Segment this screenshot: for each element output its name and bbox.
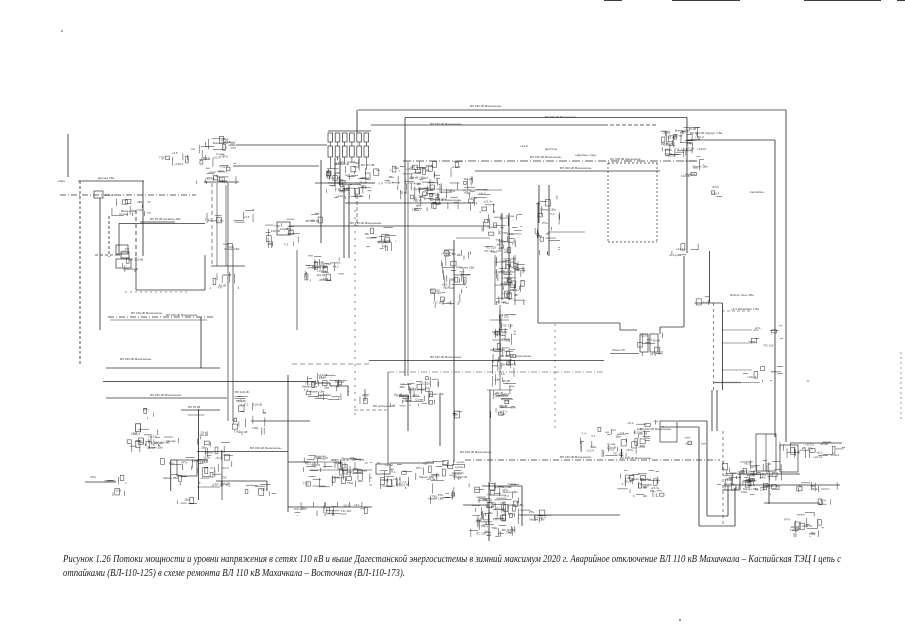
svg-text:Махач 1Ви: Махач 1Ви <box>163 476 178 480</box>
svg-text:кВт: кВт <box>481 523 486 527</box>
svg-text:Т-1: Т-1 <box>220 155 225 159</box>
svg-text:РП+: РП+ <box>413 393 419 397</box>
svg-text:кВт: кВт <box>810 484 815 488</box>
svg-text:кВт: кВт <box>423 462 428 466</box>
svg-text:+8,1-: +8,1- <box>681 147 688 151</box>
svg-text:-15,2+: -15,2+ <box>318 375 327 379</box>
svg-text:кВт: кВт <box>417 181 422 185</box>
svg-text:2Ви: 2Ви <box>137 200 143 204</box>
svg-text:+12,4: +12,4 <box>121 249 129 253</box>
svg-text:Махач 1Ви: Махач 1Ви <box>429 392 444 396</box>
svg-text:Махач 1Ви: Махач 1Ви <box>420 187 435 191</box>
svg-text:+12,4: +12,4 <box>408 181 416 185</box>
svg-text:110 кВ: 110 кВ <box>485 505 494 509</box>
svg-text:ВЛ 330 кВ Махачкала+: ВЛ 330 кВ Махачкала+ <box>470 104 502 108</box>
svg-text:ПС 110: ПС 110 <box>433 301 443 305</box>
svg-text:+8,1-: +8,1- <box>500 313 507 317</box>
svg-text:+УШ-4: +УШ-4 <box>219 165 228 169</box>
svg-text:ВЛ 110 кВ: ВЛ 110 кВ <box>235 390 249 394</box>
svg-text:Т-1: Т-1 <box>223 146 228 150</box>
svg-text:Т-1: Т-1 <box>446 253 451 257</box>
svg-text:-15,2+: -15,2+ <box>408 387 417 391</box>
svg-text:кВт: кВт <box>502 501 507 505</box>
svg-text:+8,1-: +8,1- <box>333 264 340 268</box>
svg-text:Махач 1Ви: Махач 1Ви <box>503 490 518 494</box>
svg-text:35 кВ: 35 кВ <box>499 404 506 408</box>
svg-text:110 кВ: 110 кВ <box>316 273 325 277</box>
svg-text:-7,4: -7,4 <box>619 431 625 435</box>
svg-text:отпайками (ВЛ-110-125) в схеме: отпайками (ВЛ-110-125) в схеме ремонта В… <box>63 568 405 579</box>
svg-text:2Ви: 2Ви <box>453 413 459 417</box>
svg-text:-15,2+: -15,2+ <box>342 503 351 507</box>
svg-text:Сулак: Сулак <box>626 473 635 477</box>
svg-text:кВт: кВт <box>514 293 519 297</box>
svg-text:Махач 1Ви: Махач 1Ви <box>743 487 758 491</box>
svg-text:35 кВ: 35 кВ <box>652 339 659 343</box>
svg-text:35 кВ: 35 кВ <box>381 478 388 482</box>
svg-text:ТЭЦ: ТЭЦ <box>423 169 430 173</box>
svg-text:+УШ-4: +УШ-4 <box>192 459 201 463</box>
svg-text:ГЭС: ГЭС <box>341 466 348 470</box>
svg-text:Сулак: Сулак <box>506 214 515 218</box>
svg-text:+3,5: +3,5 <box>244 215 250 219</box>
svg-text:110 кВ: 110 кВ <box>674 133 683 137</box>
svg-text:+УШ-4: +УШ-4 <box>501 271 510 275</box>
svg-text:+12,4: +12,4 <box>419 193 427 197</box>
svg-text:ВЛ 110 кВ: ВЛ 110 кВ <box>361 163 375 167</box>
svg-text:Даг.Огни: Даг.Огни <box>545 147 557 151</box>
svg-text:кВт: кВт <box>536 202 541 206</box>
svg-text:-15,2+: -15,2+ <box>664 148 673 152</box>
svg-text:+Лак+: +Лак+ <box>57 179 66 183</box>
svg-text:110 кВ: 110 кВ <box>239 430 248 434</box>
svg-text:-15,2+: -15,2+ <box>412 208 421 212</box>
svg-text:РП+: РП+ <box>450 189 456 193</box>
svg-text:110 кВ: 110 кВ <box>681 174 690 178</box>
svg-text:ВЛ 110 кВ: ВЛ 110 кВ <box>129 257 143 261</box>
svg-text:ВЛ 330 кВ Махачкала+: ВЛ 330 кВ Махачкала+ <box>560 166 592 170</box>
svg-text:110 кВ: 110 кВ <box>153 441 162 445</box>
svg-text:Линия 35: Линия 35 <box>612 348 625 352</box>
svg-text:ГЭС: ГЭС <box>137 208 144 212</box>
svg-text:+8,1-: +8,1- <box>222 137 229 141</box>
svg-text:+12,4: +12,4 <box>746 477 754 481</box>
svg-text:35 кВ: 35 кВ <box>485 499 492 503</box>
svg-text:Т-1: Т-1 <box>505 399 510 403</box>
svg-text:-7,4: -7,4 <box>653 419 659 423</box>
svg-text:РП+: РП+ <box>529 510 535 514</box>
svg-text:+12,4: +12,4 <box>463 189 471 193</box>
svg-text:Махач 1Ви: Махач 1Ви <box>541 208 556 212</box>
svg-text:Т-1: Т-1 <box>284 242 289 246</box>
svg-text:ВЛ 330 кВ Махачкала+: ВЛ 330 кВ Махачкала+ <box>350 221 382 225</box>
svg-text:кВт: кВт <box>390 467 395 471</box>
svg-text:РП+: РП+ <box>542 221 548 225</box>
svg-text:Т-1: Т-1 <box>771 370 776 374</box>
svg-text:2Ви: 2Ви <box>268 242 274 246</box>
svg-text:-7,4: -7,4 <box>331 184 337 188</box>
svg-text:кВт: кВт <box>495 378 500 382</box>
svg-text:+8,1-: +8,1- <box>354 503 361 507</box>
svg-text:2Ви: 2Ви <box>324 386 330 390</box>
svg-text:ПС 110: ПС 110 <box>496 300 506 304</box>
svg-text:кВт: кВт <box>537 234 542 238</box>
svg-text:+3,5: +3,5 <box>222 180 228 184</box>
svg-text:-7,4: -7,4 <box>378 182 384 186</box>
svg-text:+УШ-4: +УШ-4 <box>830 453 839 457</box>
svg-text:Махач 1Ви: Махач 1Ви <box>428 496 443 500</box>
svg-text:кВт: кВт <box>410 165 415 169</box>
svg-text:+4,3 Избербаш 1 Ви: +4,3 Избербаш 1 Ви <box>731 307 759 311</box>
svg-text:35 кВ: 35 кВ <box>502 362 509 366</box>
svg-text:ПС 110: ПС 110 <box>431 291 441 295</box>
svg-text:+12,4: +12,4 <box>200 460 208 464</box>
svg-text:+113,6: +113,6 <box>200 476 209 480</box>
svg-text:Т-1: Т-1 <box>304 388 309 392</box>
svg-text:-7,4: -7,4 <box>401 480 407 484</box>
svg-text:Т-1: Т-1 <box>703 300 708 304</box>
svg-text:+21,3+: +21,3+ <box>483 199 493 203</box>
svg-text:+8,1-: +8,1- <box>627 421 634 425</box>
svg-text:Махач 1Ви: Махач 1Ви <box>312 265 327 269</box>
svg-text:Сулак: Сулак <box>499 230 508 234</box>
svg-text:35 кВ: 35 кВ <box>383 239 390 243</box>
svg-text:110 кВ: 110 кВ <box>253 403 262 407</box>
svg-text:ГЭС: ГЭС <box>766 462 773 466</box>
svg-text:+3,5: +3,5 <box>115 489 121 493</box>
svg-text:ВЛ 330 кВ Махачкала+: ВЛ 330 кВ Махачкала+ <box>166 313 198 317</box>
svg-text:+3,5: +3,5 <box>499 372 505 376</box>
svg-text:Т-1: Т-1 <box>205 218 210 222</box>
svg-text:Изберг Озен 1Ви: Изберг Озен 1Ви <box>730 293 754 297</box>
svg-text:ТЭЦ: ТЭЦ <box>496 238 503 242</box>
svg-text:35 кВ: 35 кВ <box>503 379 510 383</box>
svg-text:ВЛ 330 кВ Махачкала+: ВЛ 330 кВ Махачкала+ <box>430 122 462 126</box>
svg-text:Т-1: Т-1 <box>244 402 249 406</box>
svg-text:ВЛ небольшой: ВЛ небольшой <box>373 404 394 408</box>
svg-text:РП+: РП+ <box>169 462 175 466</box>
svg-text:+УШ-4: +УШ-4 <box>451 165 460 169</box>
svg-text:РП+: РП+ <box>182 460 188 464</box>
svg-text:+УШ-4: +УШ-4 <box>384 181 393 185</box>
svg-text:2Ви: 2Ви <box>335 171 341 175</box>
svg-text:35 кВ: 35 кВ <box>400 191 407 195</box>
svg-text:35 кВ: 35 кВ <box>663 131 670 135</box>
svg-text:кВт: кВт <box>365 232 370 236</box>
svg-text:Т-1: Т-1 <box>263 487 268 491</box>
svg-text:+8,1-: +8,1- <box>215 456 222 460</box>
svg-text:+8,1-: +8,1- <box>479 192 486 196</box>
svg-text:ТЭЦ: ТЭЦ <box>687 141 694 145</box>
svg-text:ВЛ 110 кВ: ВЛ 110 кВ <box>215 482 229 486</box>
svg-text:+УШ-4: +УШ-4 <box>500 281 509 285</box>
svg-text:2Ви: 2Ви <box>616 435 622 439</box>
svg-text:Махач 1Ви: Махач 1Ви <box>630 477 645 481</box>
svg-text:+УШ-4: +УШ-4 <box>174 162 183 166</box>
svg-text:Дылым 1Ви: Дылым 1Ви <box>98 176 115 180</box>
svg-text:+8,1-: +8,1- <box>685 442 692 446</box>
svg-text:Сулак: Сулак <box>502 239 511 243</box>
svg-text:Махач 1Ви: Махач 1Ви <box>302 384 317 388</box>
svg-text:+113,6: +113,6 <box>148 435 157 439</box>
svg-text:Махач 1Ви: Махач 1Ви <box>693 165 708 169</box>
svg-text:-7,4: -7,4 <box>549 212 555 216</box>
svg-text:+21,3+: +21,3+ <box>650 486 660 490</box>
svg-text:ТЭЦ: ТЭЦ <box>809 532 816 536</box>
svg-text:2Ви: 2Ви <box>400 385 406 389</box>
svg-text:+8,1-: +8,1- <box>816 450 823 454</box>
svg-text:2Ви: 2Ви <box>394 166 400 170</box>
svg-text:+113,6: +113,6 <box>662 142 671 146</box>
svg-text:ВЛ 330 кВ Махачкала+: ВЛ 330 кВ Махачкала+ <box>620 456 652 460</box>
svg-text:2Ви: 2Ви <box>358 479 364 483</box>
svg-text:ВЛ 330 кВ Махачкала+: ВЛ 330 кВ Махачкала+ <box>430 198 462 202</box>
svg-text:ВЛ 35 кВ: ВЛ 35 кВ <box>188 405 200 409</box>
svg-text:+12,4: +12,4 <box>321 277 329 281</box>
svg-text:ТЭЦ: ТЭЦ <box>506 531 513 535</box>
svg-text:Каспийск+: Каспийск+ <box>750 190 765 194</box>
svg-text:+113,6: +113,6 <box>336 194 345 198</box>
svg-text:Махач 1Ви: Махач 1Ви <box>121 209 136 213</box>
svg-text:РП+: РП+ <box>509 512 515 516</box>
svg-text:ВЛ 330 кВ Махачкала+: ВЛ 330 кВ Махачкала+ <box>500 354 532 358</box>
svg-text:+8,1-: +8,1- <box>733 486 740 490</box>
svg-text:ТЭЦ: ТЭЦ <box>796 484 803 488</box>
svg-text:РП+: РП+ <box>808 447 814 451</box>
svg-text:2Ви: 2Ви <box>449 277 455 281</box>
svg-text:ПС 110: ПС 110 <box>305 461 315 465</box>
svg-text:ГЭС: ГЭС <box>221 476 228 480</box>
svg-text:+113,6: +113,6 <box>639 334 648 338</box>
svg-text:РП+: РП+ <box>784 518 790 522</box>
svg-text:-7,4: -7,4 <box>486 533 492 537</box>
svg-text:ПС 110: ПС 110 <box>236 399 246 403</box>
svg-text:РП+: РП+ <box>456 265 462 269</box>
svg-text:-7,4: -7,4 <box>217 286 223 290</box>
svg-text:кВт: кВт <box>457 253 462 257</box>
svg-text:+8,1-: +8,1- <box>744 462 751 466</box>
svg-text:+УШ-4: +УШ-4 <box>747 375 756 379</box>
svg-text:2Ви: 2Ви <box>201 446 207 450</box>
svg-text:110 кВ: 110 кВ <box>222 273 231 277</box>
svg-text:+Дербент соед: +Дербент соед <box>575 153 596 157</box>
svg-text:ВЛ 330 кВ Махачкала+: ВЛ 330 кВ Махачкала+ <box>430 355 462 359</box>
svg-text:ПС 110: ПС 110 <box>613 452 623 456</box>
svg-text:ВЛ 330 кВ Махачкала+: ВЛ 330 кВ Махачкала+ <box>530 155 562 159</box>
svg-text:ПС 110: ПС 110 <box>420 382 430 386</box>
svg-text:РП+: РП+ <box>416 466 422 470</box>
svg-text:+12,8: +12,8 <box>520 144 528 148</box>
svg-text:+12,4: +12,4 <box>205 177 213 181</box>
svg-text:РП+: РП+ <box>821 499 827 503</box>
svg-text:ПС 110: ПС 110 <box>444 286 454 290</box>
svg-text:ГЭС: ГЭС <box>159 155 166 159</box>
svg-text:+12,4: +12,4 <box>586 449 594 453</box>
svg-text:+8,1-: +8,1- <box>650 352 657 356</box>
svg-text:ВЛ 330 кВ Махачкала+: ВЛ 330 кВ Махачкала+ <box>150 393 182 397</box>
svg-text:ПС 110: ПС 110 <box>503 324 513 328</box>
svg-text:Т-1: Т-1 <box>456 476 461 480</box>
svg-text:+3,5: +3,5 <box>725 477 731 481</box>
svg-text:2Ви: 2Ви <box>184 498 190 502</box>
svg-text:кВт: кВт <box>802 446 807 450</box>
svg-text:+3,5: +3,5 <box>384 234 390 238</box>
svg-text:ВЛ 330 кВ Махачкала+: ВЛ 330 кВ Махачкала+ <box>131 311 163 315</box>
svg-text:35 кВ: 35 кВ <box>359 180 366 184</box>
svg-text:+8,1-: +8,1- <box>487 493 494 497</box>
svg-text:ТЭЦ: ТЭЦ <box>252 426 259 430</box>
svg-text:РП+: РП+ <box>91 475 97 479</box>
svg-text:Сулак: Сулак <box>415 398 424 402</box>
svg-text:110 кВ: 110 кВ <box>409 175 418 179</box>
svg-text:35 кВ: 35 кВ <box>495 391 502 395</box>
svg-text:ТЭЦ: ТЭЦ <box>347 481 354 485</box>
svg-text:-7,4: -7,4 <box>581 432 587 436</box>
svg-text:Сулак: Сулак <box>147 446 156 450</box>
svg-text:ПС 110: ПС 110 <box>314 260 324 264</box>
svg-text:ГЭС: ГЭС <box>510 288 517 292</box>
svg-text:+12,4: +12,4 <box>334 162 342 166</box>
svg-text:Сулак: Сулак <box>510 265 519 269</box>
svg-text:ГЭС: ГЭС <box>642 485 649 489</box>
svg-text:+УШ-4: +УШ-4 <box>502 276 511 280</box>
svg-text:+УШ-4: +УШ-4 <box>419 176 428 180</box>
svg-text:+8,1-: +8,1- <box>646 338 653 342</box>
svg-text:РП+: РП+ <box>640 444 646 448</box>
svg-text:35 кВ: 35 кВ <box>624 480 631 484</box>
svg-text:ВЛ 330 кВ Махачкала+: ВЛ 330 кВ Махачкала+ <box>120 357 152 361</box>
svg-text:ПС 110: ПС 110 <box>764 343 774 347</box>
svg-text:110 кВ: 110 кВ <box>294 507 303 511</box>
svg-text:110 кВ: 110 кВ <box>496 507 505 511</box>
svg-text:ПС 110: ПС 110 <box>476 532 486 536</box>
svg-text:Т-1: Т-1 <box>360 458 365 462</box>
svg-text:ПС 110: ПС 110 <box>493 333 503 337</box>
svg-text:ВЛ 330 кВ Махачкала+: ВЛ 330 кВ Махачкала+ <box>640 427 672 431</box>
svg-text:ТЭЦ: ТЭЦ <box>738 471 745 475</box>
svg-text:Т-1: Т-1 <box>512 242 517 246</box>
svg-text:110 кВ: 110 кВ <box>607 445 616 449</box>
svg-text:Махач 1Ви: Махач 1Ви <box>224 247 239 251</box>
svg-text:2Ви: 2Ви <box>389 175 395 179</box>
svg-text:+3,5: +3,5 <box>172 151 178 155</box>
svg-text:35 кВ: 35 кВ <box>820 442 827 446</box>
svg-text:+3,5: +3,5 <box>316 395 322 399</box>
svg-text:+21,3+: +21,3+ <box>676 247 686 251</box>
svg-text:ВЛ 330 кВ Махачкала+: ВЛ 330 кВ Махачкала+ <box>560 455 592 459</box>
svg-text:Т-1: Т-1 <box>503 409 508 413</box>
svg-text:2Ви: 2Ви <box>488 511 494 515</box>
svg-text:Сулак: Сулак <box>673 253 682 257</box>
svg-text:+3,5: +3,5 <box>362 394 368 398</box>
svg-text:+12,4: +12,4 <box>393 477 401 481</box>
svg-text:РП+: РП+ <box>143 408 149 412</box>
svg-text:+113,6: +113,6 <box>453 471 462 475</box>
svg-text:+8,1-: +8,1- <box>755 326 762 330</box>
svg-text:Т-1: Т-1 <box>591 434 596 438</box>
svg-text:-7,4: -7,4 <box>212 174 218 178</box>
svg-text:-7,4: -7,4 <box>505 339 511 343</box>
svg-text:Сулак: Сулак <box>167 439 176 443</box>
svg-text:Махач 1Ви: Махач 1Ви <box>419 475 434 479</box>
svg-text:+12,4: +12,4 <box>470 201 478 205</box>
svg-text:110 кВ: 110 кВ <box>463 177 472 181</box>
svg-text:+21,3+: +21,3+ <box>813 455 823 459</box>
svg-text:+113,6: +113,6 <box>403 396 412 400</box>
svg-text:ВЛ 110 кВ: ВЛ 110 кВ <box>306 219 320 223</box>
svg-text:+113,6: +113,6 <box>201 156 210 160</box>
svg-text:Т-1: Т-1 <box>647 478 652 482</box>
svg-text:ТЭЦ: ТЭЦ <box>759 472 766 476</box>
svg-text:35 кВ: 35 кВ <box>426 164 433 168</box>
svg-text:+113,6: +113,6 <box>805 442 814 446</box>
svg-text:ТЭЦ: ТЭЦ <box>491 526 498 530</box>
svg-text:+3,5: +3,5 <box>503 247 509 251</box>
svg-text:ПС 330 кВ Махачкала: ПС 330 кВ Махачкала <box>610 157 641 161</box>
svg-text:110 кВ: 110 кВ <box>337 181 346 185</box>
svg-text:-15,2+: -15,2+ <box>285 227 294 231</box>
svg-text:+УШ-4: +УШ-4 <box>334 475 343 479</box>
svg-text:Рисунок 1.26 Потоки мощности и: Рисунок 1.26 Потоки мощности и уровни на… <box>62 554 841 565</box>
svg-text:+УШ-4: +УШ-4 <box>335 380 344 384</box>
svg-text:+УШ-4: +УШ-4 <box>537 515 546 519</box>
svg-text:-15,2+: -15,2+ <box>202 456 211 460</box>
svg-text:ВЛ 35 кВ Аргвани 1Ви: ВЛ 35 кВ Аргвани 1Ви <box>150 217 181 221</box>
svg-text:РП+: РП+ <box>354 165 360 169</box>
svg-text:+113,6: +113,6 <box>666 154 675 158</box>
svg-text:-7,4: -7,4 <box>504 494 510 498</box>
svg-text:ГЭС: ГЭС <box>274 224 281 228</box>
svg-text:ПС 110: ПС 110 <box>318 456 328 460</box>
svg-text:110 кВ: 110 кВ <box>199 433 208 437</box>
svg-text:РП+: РП+ <box>382 245 388 249</box>
svg-text:Махач 1Ви: Махач 1Ви <box>509 503 524 507</box>
svg-text:Махач 1Ви: Махач 1Ви <box>310 390 325 394</box>
svg-text:110 кВ: 110 кВ <box>271 229 280 233</box>
svg-text:ПС 110: ПС 110 <box>341 509 351 513</box>
svg-text:Махач 1Ви: Махач 1Ви <box>213 141 228 145</box>
svg-text:Сулак: Сулак <box>455 465 464 469</box>
svg-text:Сулак: Сулак <box>493 347 502 351</box>
svg-text:Сулак: Сулак <box>607 442 616 446</box>
svg-text:ВЛ 330 кВ Махачкала+: ВЛ 330 кВ Махачкала+ <box>250 446 282 450</box>
svg-text:ВЛ 330 кВ Махачкала+: ВЛ 330 кВ Махачкала+ <box>460 450 492 454</box>
svg-text:110 кВ: 110 кВ <box>790 525 799 529</box>
svg-text:ПС 110: ПС 110 <box>484 249 494 253</box>
svg-text:+113,6: +113,6 <box>697 147 706 151</box>
svg-text:Т-1: Т-1 <box>501 510 506 514</box>
svg-text:+3,5: +3,5 <box>361 186 367 190</box>
svg-text:110 кВ: 110 кВ <box>353 194 362 198</box>
svg-text:2Ви: 2Ви <box>499 516 505 520</box>
svg-text:-7,4: -7,4 <box>674 147 680 151</box>
svg-text:ГЭС: ГЭС <box>472 196 479 200</box>
svg-text:Махач 1Ви: Махач 1Ви <box>208 219 223 223</box>
svg-text:кВт: кВт <box>545 231 550 235</box>
svg-text:+3,5: +3,5 <box>341 472 347 476</box>
svg-text:ПС 110: ПС 110 <box>724 482 734 486</box>
svg-text:ГЭС: ГЭС <box>303 482 310 486</box>
svg-text:-15,2+: -15,2+ <box>625 448 634 452</box>
svg-text:+ПС-4: +ПС-4 <box>695 135 704 139</box>
svg-text:-7,4: -7,4 <box>476 517 482 521</box>
svg-text:кВт: кВт <box>452 252 457 256</box>
svg-text:Сулак: Сулак <box>508 482 517 486</box>
svg-text:+12,4: +12,4 <box>331 176 339 180</box>
svg-text:ВЛ 330 кВ Махачкала+: ВЛ 330 кВ Махачкала+ <box>545 115 577 119</box>
svg-text:+12,4: +12,4 <box>712 191 720 195</box>
svg-text:+21,3+: +21,3+ <box>334 461 344 465</box>
